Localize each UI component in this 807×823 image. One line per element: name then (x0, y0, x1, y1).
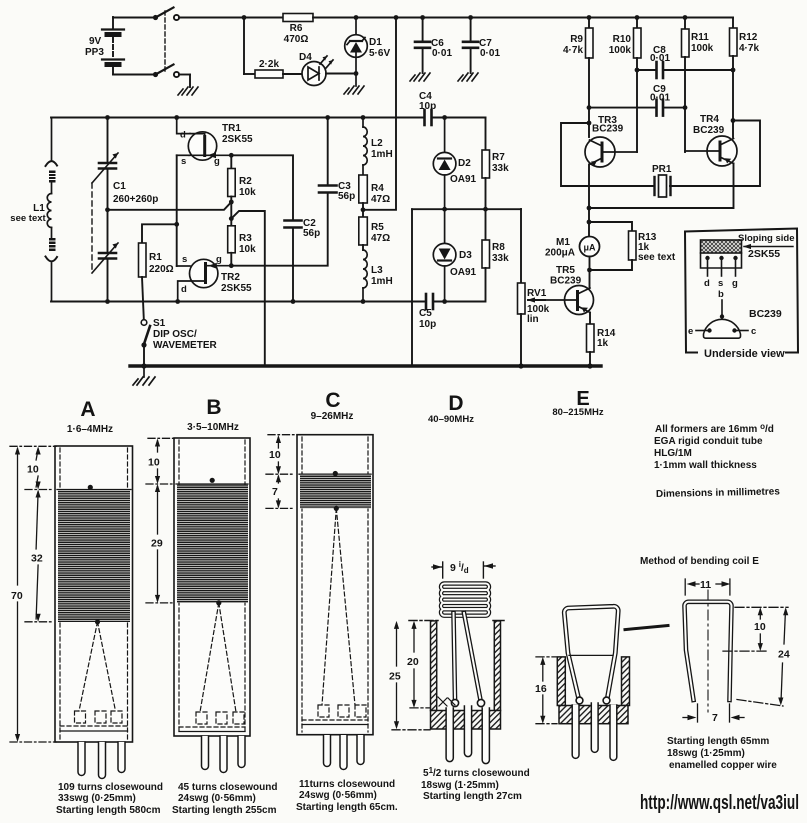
wire: main ground rail (130, 364, 601, 367)
node rail/feed (394, 15, 399, 20)
svg-text:7: 7 (272, 486, 278, 498)
resistor R13 1k see text (590, 231, 676, 270)
svg-text:100k: 100k (609, 45, 632, 56)
coil A base inner line (60, 730, 128, 732)
svg-text:C5: C5 (419, 308, 432, 319)
wire TR4 emitter down (589, 164, 734, 209)
node rail/L2 (361, 115, 366, 120)
svg-text:HLG/1M: HLG/1M (654, 448, 692, 459)
svg-text:D2: D2 (458, 158, 471, 169)
svg-text:All formers are 16mm o/d: All formers are 16mm o/d (655, 422, 774, 435)
inductor L2 1mH (363, 118, 393, 176)
battery B1 9V PP3 (85, 17, 155, 75)
coil D air coil turns (441, 584, 489, 616)
zener D1 5.6V (345, 18, 391, 87)
svg-text:40–90MHz: 40–90MHz (428, 414, 474, 425)
ground under D1 (344, 86, 364, 94)
svg-text:9V: 9V (89, 36, 102, 47)
svg-text:Starting length 65cm.: Starting length 65cm. (296, 802, 398, 813)
svg-text:TR1: TR1 (222, 123, 241, 134)
svg-text:S1: S1 (153, 318, 166, 329)
node C4/D2 (442, 115, 447, 120)
node TR4 collector loop (731, 118, 736, 123)
resistor R10 100k (609, 18, 641, 153)
LED D4 (299, 52, 333, 86)
svg-text:45 turns closewound: 45 turns closewound (178, 782, 277, 793)
coil A dim 70 (10, 446, 56, 742)
formers note text block (654, 422, 780, 500)
inset pinout box (685, 229, 798, 361)
coil A winding (58, 485, 130, 625)
capacitor C9 0.01 (coupling) (587, 84, 688, 116)
coil A former body (55, 446, 133, 742)
svg-text:2SK55: 2SK55 (221, 283, 252, 294)
wire to R1 (142, 224, 177, 243)
wire: detector mid line (412, 208, 521, 210)
svg-text:D4: D4 (299, 52, 312, 63)
svg-text:Starting length 255cm: Starting length 255cm (172, 805, 277, 816)
wire right loop TR4 collector to PR1 (670, 121, 760, 187)
capacitor C4 10p (419, 91, 486, 125)
2SK55 package (underside) (701, 240, 781, 289)
resistor R8 33k (453, 209, 509, 301)
coil B title (187, 396, 239, 433)
ground under C6 (410, 73, 430, 81)
svg-text:TR2: TR2 (221, 272, 240, 283)
svg-text:C1: C1 (113, 181, 126, 192)
svg-text:R5: R5 (371, 222, 384, 233)
svg-text:1k: 1k (597, 338, 609, 349)
node rail/C1 top (105, 115, 110, 120)
svg-text:EGA rigid conduit tube: EGA rigid conduit tube (654, 436, 763, 447)
coil D pins (446, 706, 489, 764)
svg-text:0·01: 0·01 (650, 93, 670, 104)
coil D dim 20 (407, 621, 430, 708)
svg-text:Starting length 580cm: Starting length 580cm (56, 805, 161, 816)
svg-text:260+260p: 260+260p (113, 194, 158, 205)
capacitor C8 0.01 (coupling) (635, 45, 736, 78)
ground under C7 (458, 73, 478, 81)
svg-text:C: C (325, 389, 340, 412)
coil A internal lead dashes (60, 622, 128, 726)
svg-text:http://www.qsl.net/va3iul: http://www.qsl.net/va3iul (640, 792, 799, 814)
svg-text:D3: D3 (459, 250, 472, 261)
svg-text:18swg (1·25mm): 18swg (1·25mm) (667, 748, 745, 759)
node rail/TR1 drain (174, 115, 179, 120)
transistor TR5 BC239 (545, 265, 594, 315)
coil A dim 10 (25, 447, 54, 490)
wire: oscillator bottom rail / C5 line (51, 301, 424, 303)
svg-text:7: 7 (712, 712, 718, 724)
resistor R9 4.7k (563, 18, 593, 138)
coil E dim 16 (535, 657, 557, 724)
coil B winding (177, 478, 248, 606)
coil D former cross-section (409, 621, 504, 730)
ganged switch dashed link (164, 11, 166, 71)
coil E title (552, 388, 603, 418)
svg-text:c: c (751, 326, 756, 337)
coil B internal lead dashes (179, 603, 245, 727)
node rail/C6 (420, 15, 425, 20)
svg-text:1mH: 1mH (371, 149, 393, 160)
coil B dim 10 (146, 438, 176, 484)
coil B caption (172, 782, 277, 816)
wire TR5 emitter to R14 (589, 313, 591, 325)
pointer line from coil E to bent diagram (625, 626, 668, 630)
potentiometer RV1 100k lin (518, 209, 550, 365)
node: 2.2k branch (242, 15, 247, 20)
svg-text:10: 10 (754, 621, 766, 633)
coil A pins (78, 742, 125, 779)
svg-text:Starting length 65mm: Starting length 65mm (667, 736, 769, 747)
svg-text:g: g (214, 156, 220, 167)
resistor R1 220ohm (139, 243, 174, 319)
node rail/C7 (468, 15, 473, 20)
node emitter bus (587, 206, 592, 211)
svg-text:b: b (718, 289, 724, 300)
node rail/R11 (683, 15, 688, 20)
node rail/C3 (325, 115, 330, 120)
svg-text:R2: R2 (239, 176, 252, 187)
coil C base inner line (302, 724, 368, 726)
wire to R13 (589, 222, 632, 231)
svg-text:e: e (688, 326, 693, 337)
svg-text:R9: R9 (570, 34, 583, 45)
svg-text:RV1: RV1 (527, 288, 547, 299)
node mid/D2 (442, 207, 447, 212)
node R3 bottom / TR2 gate (229, 263, 234, 268)
inductor L3 1mH (363, 250, 393, 302)
node R13 top branch (587, 220, 592, 225)
coil B base inner line (179, 731, 245, 733)
node TR3 collector loop (587, 121, 592, 126)
svg-text:OA91: OA91 (450, 267, 477, 278)
node R2 bottom / C1 tap (229, 200, 234, 205)
coil D dim 9 i/d (432, 560, 495, 578)
svg-text:PR1: PR1 (652, 164, 672, 175)
coil B former body (174, 438, 250, 736)
svg-text:TR4: TR4 (700, 114, 719, 125)
coil D leads into former (454, 613, 481, 700)
node R4/R5 feed (361, 207, 366, 212)
svg-text:24swg (0·56mm): 24swg (0·56mm) (178, 793, 256, 804)
BC239 package (underside) (688, 289, 782, 338)
svg-text:5·6V: 5·6V (369, 48, 390, 59)
svg-text:1·6–4MHz: 1·6–4MHz (67, 424, 113, 435)
svg-text:R11: R11 (691, 32, 709, 43)
svg-text:PP3: PP3 (85, 47, 104, 58)
svg-text:0·01: 0·01 (432, 48, 452, 59)
capacitor C6 0.01 (415, 18, 452, 74)
svg-text:10k: 10k (239, 244, 256, 255)
wire: top rail after R6 (313, 17, 733, 19)
svg-text:R6: R6 (290, 23, 303, 34)
bent coil caption (667, 736, 777, 771)
svg-text:16: 16 (535, 683, 547, 695)
svg-text:2·2k: 2·2k (259, 59, 279, 70)
svg-text:10: 10 (148, 457, 160, 469)
coil C winding (300, 471, 371, 511)
wire: top rail (179, 17, 283, 19)
svg-text:10p: 10p (419, 101, 436, 112)
svg-text:47Ω: 47Ω (371, 194, 390, 205)
coil E terminals (576, 697, 610, 704)
coil C former body (297, 435, 373, 735)
coil C caption (296, 779, 398, 813)
svg-text:25: 25 (389, 671, 401, 683)
transistor TR3 BC239 (585, 115, 637, 167)
svg-text:D1: D1 (369, 37, 382, 48)
svg-text:OA91: OA91 (450, 174, 477, 185)
coil D caption (421, 766, 530, 802)
svg-text:24swg (0·56mm): 24swg (0·56mm) (299, 790, 377, 801)
svg-text:200μA: 200μA (545, 248, 575, 259)
coil D dim 25 (389, 621, 430, 730)
svg-text:μA: μA (583, 243, 596, 253)
coil A title (67, 398, 113, 435)
svg-text:24: 24 (778, 649, 790, 661)
coil E pins (572, 703, 617, 760)
svg-text:32: 32 (31, 553, 43, 565)
svg-text:10k: 10k (239, 187, 256, 198)
resistor R5 47ohm (359, 217, 390, 250)
svg-text:enamelled copper wire: enamelled copper wire (669, 760, 777, 771)
svg-text:BC239: BC239 (550, 276, 582, 287)
wire TR3 emitter down (588, 165, 590, 210)
svg-text:Starting length 27cm: Starting length 27cm (423, 791, 522, 802)
svg-text:g: g (216, 254, 222, 265)
svg-text:70: 70 (11, 590, 23, 602)
svg-text:0·01: 0·01 (650, 53, 670, 64)
wire D4 to D1 column (326, 73, 356, 75)
svg-text:B: B (206, 396, 221, 419)
variable capacitor C1 (bottom gang) (92, 181, 158, 302)
svg-text:3·5–10MHz: 3·5–10MHz (187, 422, 239, 433)
svg-text:d: d (181, 284, 187, 295)
transistor TR4 BC239 (685, 114, 737, 166)
node meter/R13 bottom (587, 268, 592, 273)
svg-text:L3: L3 (371, 265, 383, 276)
coil D title (faded) (428, 392, 474, 425)
svg-text:d: d (704, 278, 710, 289)
wire TR1 source down to TR2 source (176, 155, 178, 266)
svg-text:R12: R12 (739, 32, 758, 43)
node mid/R7 (483, 207, 488, 212)
svg-text:100k: 100k (691, 43, 714, 54)
resistor R11 100k (682, 18, 714, 153)
svg-text:DIP OSC/: DIP OSC/ (153, 329, 197, 340)
capacitor C7 0.01 (463, 18, 500, 74)
svg-text:L2: L2 (371, 138, 383, 149)
svg-text:d: d (180, 130, 186, 141)
node TR2 drain on osc rail (175, 299, 180, 304)
wire left loop TR3 collector to PR1 (561, 123, 654, 186)
wire: mid line corner down to ground rail (411, 209, 413, 366)
node rail/R9 (587, 15, 592, 20)
resistor R14 1k (587, 324, 616, 365)
bent coil dim 7 (683, 704, 744, 724)
wire meter to TR5 (589, 257, 591, 288)
svg-text:Method of bending coil E: Method of bending coil E (640, 556, 759, 567)
diode D3 OA91 (433, 209, 476, 301)
svg-text:R4: R4 (371, 183, 384, 194)
resistor R7 33k (482, 118, 509, 210)
svg-text:Dimensions in millimetres: Dimensions in millimetres (656, 486, 781, 500)
svg-text:R3: R3 (239, 233, 252, 244)
svg-text:4·7k: 4·7k (563, 45, 583, 56)
wire 2.2k to D4 (283, 73, 302, 75)
node ground/S1 (141, 363, 146, 368)
svg-text:R8: R8 (492, 242, 505, 253)
wire emitter bus down to meter (588, 208, 590, 237)
svg-text:2SK55: 2SK55 (222, 134, 253, 145)
svg-text:Sloping side: Sloping side (738, 233, 794, 244)
bent coil dim 24 (737, 607, 790, 706)
svg-text:BC239: BC239 (693, 125, 725, 136)
ground under S1 (133, 366, 155, 385)
bent coil E diagram (684, 602, 731, 700)
svg-text:s: s (181, 156, 186, 167)
svg-text:9 i/d: 9 i/d (450, 560, 469, 575)
svg-text:9–26MHz: 9–26MHz (311, 411, 354, 422)
coil B pins (202, 736, 246, 773)
coil C title (311, 389, 354, 422)
resistor R4 47ohm (359, 175, 390, 217)
node sources/R1 (174, 222, 179, 227)
svg-text:s: s (182, 254, 187, 265)
svg-text:lin: lin (527, 314, 539, 325)
wire gate tap to TR2 gate line (231, 211, 264, 366)
wire TR1 gate to C2 top (231, 155, 293, 219)
coil C dim 10 (266, 435, 298, 475)
capacitor C2 56p (285, 218, 321, 302)
node TR2 gate tap (229, 216, 234, 221)
resonator PR1 (652, 164, 672, 197)
wire C1 tap to R2/R3 junction (108, 202, 232, 210)
svg-text:109 turns closewound: 109 turns closewound (58, 782, 163, 793)
bent coil dim 11 (685, 579, 730, 595)
svg-text:20: 20 (407, 656, 419, 668)
svg-text:s: s (718, 278, 723, 289)
bent coil dim 10 (723, 607, 788, 651)
resistor 2.2k (255, 59, 283, 78)
C1 gang dashed link (91, 183, 93, 273)
wire TR2 gate line to C3 bottom (231, 194, 327, 266)
svg-text:R10: R10 (613, 34, 632, 45)
coil E former cross-section (557, 655, 629, 723)
coil A dim 32 (25, 490, 54, 622)
svg-text:R1: R1 (149, 252, 162, 263)
svg-text:11: 11 (700, 579, 711, 591)
wire: oscillator top rail (51, 117, 424, 119)
transistor TR1 2SK55 (177, 118, 253, 168)
svg-text:56p: 56p (303, 228, 320, 239)
node rail/D1 (354, 15, 359, 20)
coil A caption (56, 782, 163, 816)
svg-text:80–215MHz: 80–215MHz (552, 407, 603, 418)
coil C internal lead dashes (302, 508, 368, 720)
svg-text:47Ω: 47Ω (371, 233, 390, 244)
meter M1 200uA (545, 237, 600, 259)
svg-text:18swg (1·25mm): 18swg (1·25mm) (421, 780, 499, 791)
sloping side arrow (738, 233, 794, 249)
resistor R2 10k (228, 153, 256, 226)
svg-text:33k: 33k (492, 163, 509, 174)
svg-text:see text: see text (638, 252, 676, 263)
variable capacitor C1 260+260p (top gang) (92, 118, 118, 210)
node C1 bottom on osc rail (105, 299, 110, 304)
svg-text:10p: 10p (419, 319, 436, 330)
svg-text:470Ω: 470Ω (284, 34, 309, 45)
transistor TR2 2SK55 (177, 254, 252, 302)
node C5/D3 (442, 299, 447, 304)
svg-text:1·1mm wall thickness: 1·1mm wall thickness (654, 460, 757, 471)
svg-text:220Ω: 220Ω (149, 264, 174, 275)
coil E hairpin in former (564, 606, 618, 700)
bent coil centre line (707, 590, 709, 712)
node D1/D4 (354, 71, 359, 76)
diode D2 OA91 (433, 118, 476, 210)
svg-text:M1: M1 (556, 237, 570, 248)
svg-text:10: 10 (27, 464, 39, 476)
svg-text:4·7k: 4·7k (739, 43, 759, 54)
svg-text:2SK55: 2SK55 (748, 248, 780, 260)
node ground/R14 (587, 363, 592, 368)
svg-text:BC239: BC239 (592, 124, 624, 135)
svg-text:R7: R7 (492, 152, 505, 163)
resistor R6 470ohm (283, 14, 313, 46)
svg-text:0·01: 0·01 (480, 48, 500, 59)
coil D terminals (438, 697, 485, 707)
inductor L1 see text (10, 118, 57, 302)
coil B dim 29 (146, 484, 172, 603)
switch S2a (battery switch top pole) (113, 8, 179, 21)
wire: feed from rail down to R4/R5 junction (364, 18, 396, 210)
svg-text:29: 29 (151, 538, 163, 550)
svg-text:see text: see text (10, 213, 46, 224)
svg-text:51/2 turns closewound: 51/2 turns closewound (423, 766, 530, 779)
wire to 2.2k (243, 18, 245, 75)
capacitor C5 10p (419, 294, 453, 330)
svg-text:56p: 56p (338, 191, 355, 202)
resistor R3 10k (228, 226, 256, 266)
node C2 bottom on osc rail (291, 299, 296, 304)
node C1 centre tap (105, 207, 110, 212)
svg-text:1mH: 1mH (371, 276, 393, 287)
svg-text:BC239: BC239 (749, 308, 782, 320)
node rail/R10 (635, 15, 640, 20)
svg-text:g: g (732, 278, 738, 289)
node ground/RV1 (518, 363, 523, 368)
svg-text:33swg (0·25mm): 33swg (0·25mm) (58, 793, 136, 804)
svg-text:A: A (80, 398, 95, 421)
ground under switch (178, 87, 198, 95)
svg-text:11turns closewound: 11turns closewound (299, 779, 395, 790)
node L3 bottom on C5 line (361, 299, 366, 304)
svg-text:Underside view: Underside view (704, 348, 785, 360)
resistor R12 4.7k (rail corner) (730, 18, 760, 138)
coil C dim 7 (266, 474, 294, 508)
switch S2b (battery switch bottom pole) (153, 65, 190, 88)
capacitor C3 56p (319, 118, 355, 203)
switch S1 DIP OSC/WAVEMETER (141, 318, 217, 366)
svg-text:TR5: TR5 (556, 265, 575, 276)
svg-text:33k: 33k (492, 253, 509, 264)
svg-text:10: 10 (269, 449, 281, 461)
coil C pins (324, 735, 365, 770)
svg-text:WAVEMETER: WAVEMETER (153, 340, 217, 351)
svg-text:D: D (448, 392, 463, 415)
